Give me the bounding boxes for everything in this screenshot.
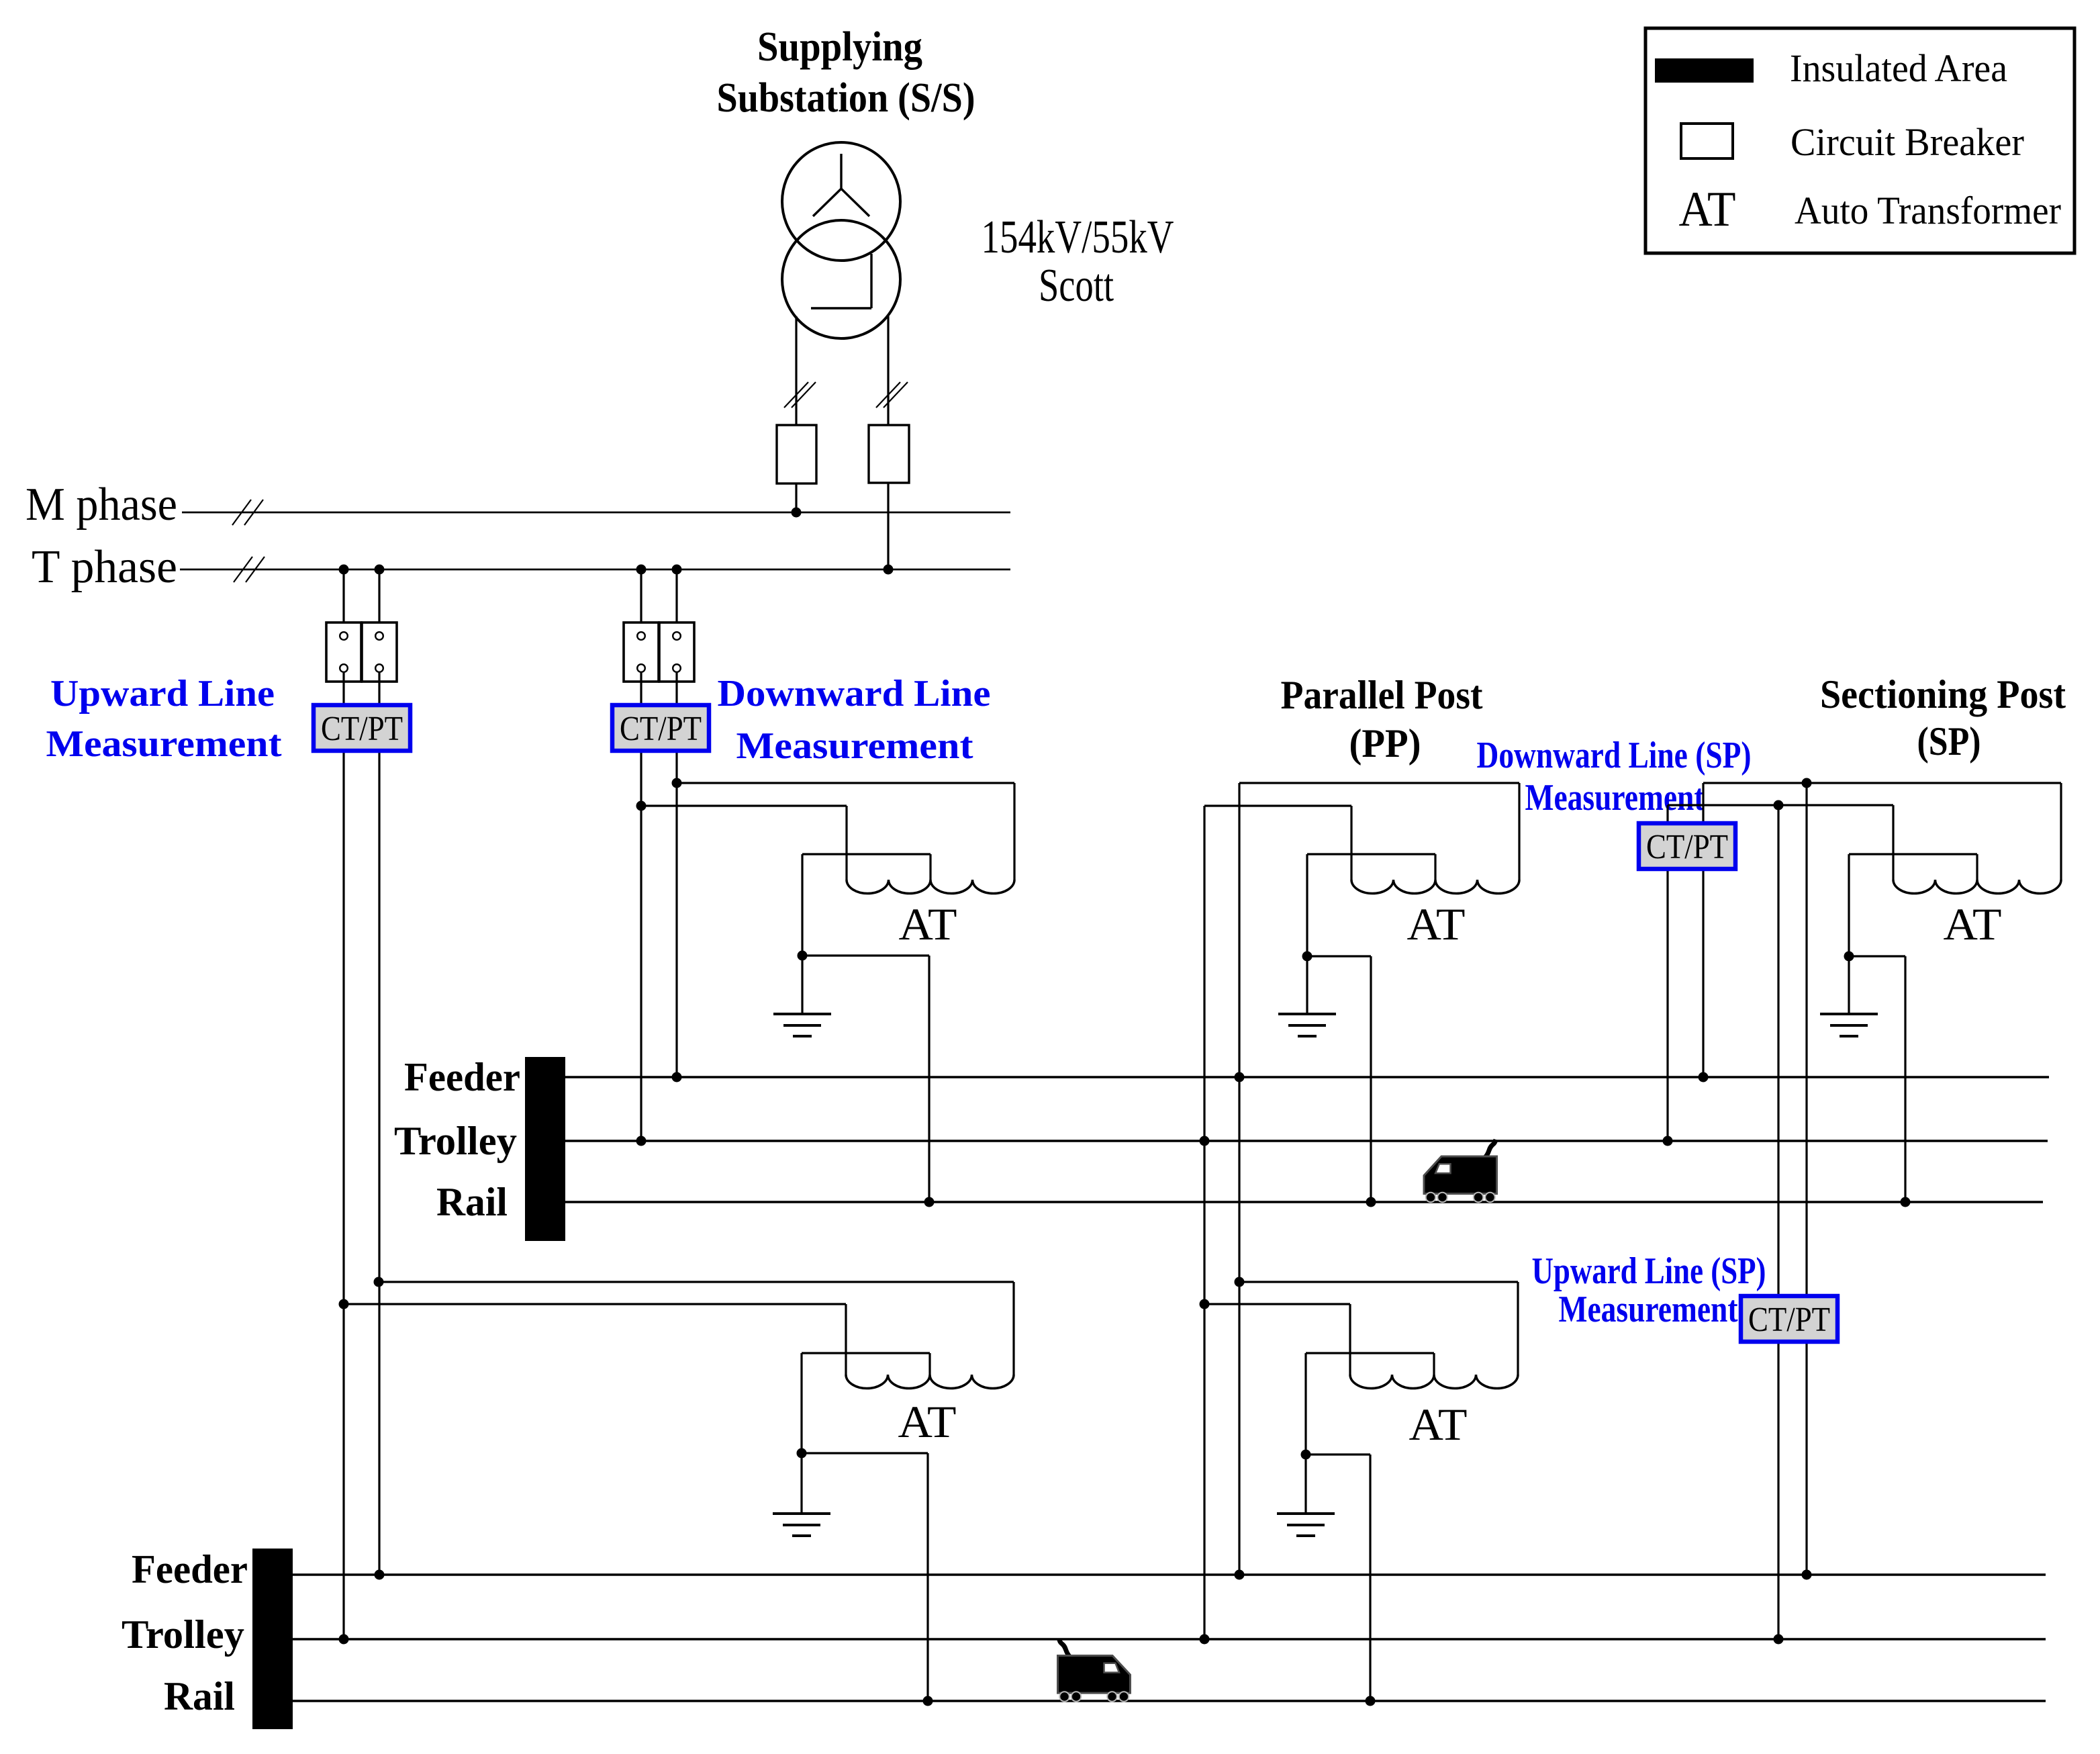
node T-leg junction — [884, 565, 894, 575]
svg-text:Measurement: Measurement — [736, 725, 973, 767]
break mark on T-leg — [876, 382, 908, 408]
wire Trolley line lower track — [293, 1638, 2046, 1640]
wire PP upward AT right terminal riser — [1517, 1282, 1519, 1375]
wire M phase bus — [182, 512, 1010, 514]
node PP upward AT rail junction — [1366, 1696, 1376, 1706]
wire SP downward CT/PT trolley-side vertical — [1666, 805, 1668, 1141]
node PP downward AT rail junction — [1366, 1197, 1376, 1207]
svg-text:154kV/55kV: 154kV/55kV — [982, 212, 1174, 263]
CT/PT box upward line measurement — [314, 705, 410, 751]
svg-text:T phase: T phase — [32, 541, 177, 593]
node downward breaker 1 on T bus — [636, 565, 647, 575]
node PP upward AT centre-tap junction — [1301, 1450, 1311, 1460]
auto-transformer PP upward AT winding — [1350, 1375, 1518, 1389]
svg-text:Upward Line: Upward Line — [50, 673, 275, 714]
svg-text:AT: AT — [1407, 898, 1466, 950]
wire PP downward AT centre-tap bar — [1307, 854, 1435, 956]
wire S/S downward AT feeder-side top wire — [677, 782, 1014, 784]
wire SP downward CT/PT feeder-side vertical — [1702, 783, 1704, 1077]
node upward breaker 1 on T bus — [339, 565, 349, 575]
node trolley2-PP — [1200, 1634, 1210, 1645]
auto-transformer S/S upward AT winding — [846, 1375, 1014, 1389]
wire PP upward AT centre-tap to rail — [1306, 1455, 1370, 1701]
svg-text:Measurement: Measurement — [1559, 1289, 1738, 1330]
circuit breaker downward-line left — [624, 622, 659, 682]
wire PP feeder-side vertical — [1238, 783, 1240, 1575]
node feeder2-PP — [1235, 1570, 1245, 1580]
wire S/S downward AT centre-tap to ground — [801, 956, 803, 1014]
train on upper track — [1486, 1140, 1496, 1157]
svg-text:CT/PT: CT/PT — [321, 710, 403, 748]
legend insulated-area swatch — [1655, 58, 1754, 83]
wire T phase bus — [180, 569, 1010, 571]
node SP AT feeder-wire junction — [1802, 778, 1812, 788]
wire SP AT centre-tap bar — [1849, 854, 1977, 956]
svg-text:AT: AT — [1409, 1399, 1468, 1450]
legend box — [1645, 28, 2074, 253]
wire transformer T-leg — [887, 316, 889, 569]
node S/S upward AT feeder tap — [374, 1277, 384, 1287]
wire Feeder line lower track — [293, 1573, 2046, 1575]
svg-text:M phase: M phase — [26, 479, 177, 530]
node S/S downward AT feeder tap — [672, 778, 682, 788]
svg-text:AT: AT — [1944, 898, 2002, 950]
node S/S upward AT centre-tap junction — [797, 1448, 807, 1459]
wire SP AT feeder-side top wire — [1703, 782, 2061, 784]
legend circuit-breaker swatch — [1681, 124, 1733, 158]
wire PP upward AT centre-tap bar — [1306, 1353, 1434, 1455]
wire T bus to downward breaker 1 — [640, 569, 642, 632]
wire transformer M-leg — [795, 316, 797, 512]
ground PP downward AT — [1278, 1014, 1336, 1036]
break mark on M phase bus — [232, 500, 263, 525]
node S/S downward AT rail junction — [924, 1197, 935, 1207]
wire downward breaker 1 down to trolley — [640, 672, 642, 1141]
circuit breaker upward-line right — [362, 622, 397, 682]
auto-transformer SP AT winding — [1893, 880, 2061, 893]
svg-text:Rail: Rail — [436, 1180, 508, 1224]
wire PP upward AT trolley-side top wire — [1204, 1303, 1350, 1305]
node S/S upward AT rail junction — [923, 1696, 933, 1706]
node feeder2-S/S — [375, 1570, 385, 1580]
wire SP AT centre-tap to ground — [1848, 956, 1850, 1014]
wire Rail line lower track — [293, 1700, 2046, 1702]
break mark on M-leg — [784, 382, 816, 408]
wire T bus to upward breaker 2 — [378, 569, 380, 632]
svg-text:CT/PT: CT/PT — [1646, 828, 1728, 866]
circuit breaker downward-line right — [659, 622, 694, 682]
wire S/S upward AT right terminal riser — [1012, 1282, 1014, 1375]
node trolley1-SP CT/PT — [1663, 1136, 1673, 1146]
node trolley1-S/S AT — [636, 1136, 647, 1146]
svg-text:Sectioning Post: Sectioning Post — [1820, 672, 2066, 717]
wire Trolley line upper track — [565, 1140, 2048, 1142]
node feeder1-S/S AT — [672, 1072, 682, 1082]
node S/S downward AT trolley tap — [636, 801, 647, 811]
svg-text:Upward Line (SP): Upward Line (SP) — [1532, 1250, 1766, 1292]
transformer secondary circle (scott winding) — [782, 220, 900, 338]
wire downward breaker 2 down to feeder — [675, 672, 677, 1077]
wire SP tie vertical feeder side — [1805, 783, 1807, 1575]
wire PP downward AT centre-tap to rail — [1307, 956, 1371, 1202]
svg-text:Trolley: Trolley — [122, 1612, 244, 1657]
node SP AT rail junction — [1901, 1197, 1911, 1207]
node trolley2-SP — [1774, 1634, 1784, 1645]
svg-text:AT: AT — [1679, 182, 1736, 237]
ground S/S downward AT — [773, 1014, 831, 1036]
wire S/S upward AT trolley-side top wire — [344, 1303, 846, 1305]
wire SP AT centre-tap to rail — [1849, 956, 1905, 1202]
node PP downward AT centre-tap junction — [1302, 952, 1312, 962]
ground S/S upward AT — [773, 1514, 830, 1536]
wire SP tie vertical trolley side — [1777, 805, 1779, 1639]
insulated area bar upper track — [525, 1057, 565, 1241]
transformer scott symbol — [811, 254, 871, 308]
svg-text:CT/PT: CT/PT — [1748, 1301, 1830, 1339]
transformer wye symbol — [813, 154, 869, 216]
wire S/S upward AT centre-tap bar — [802, 1353, 930, 1453]
wire T bus to upward breaker 1 — [342, 569, 344, 632]
wire SP AT left terminal riser — [1892, 805, 1894, 880]
svg-text:Measurement: Measurement — [1525, 777, 1705, 819]
svg-text:Measurement: Measurement — [46, 723, 282, 765]
svg-text:CT/PT: CT/PT — [620, 710, 702, 748]
node SP AT trolley-wire junction — [1774, 800, 1784, 811]
node S/S upward AT trolley tap — [339, 1299, 349, 1309]
circuit breaker CB-M on transformer leg — [777, 425, 816, 483]
wire S/S downward AT left terminal riser — [845, 806, 847, 880]
wire PP downward AT left terminal riser — [1350, 806, 1352, 880]
wire upward breaker 2 down to feeder line — [378, 672, 380, 1575]
wire PP downward AT right terminal riser — [1518, 783, 1520, 880]
wire S/S upward AT left terminal riser — [845, 1304, 847, 1375]
node SP AT centre-tap junction — [1844, 952, 1854, 962]
svg-text:AT: AT — [898, 1396, 957, 1447]
wire S/S downward AT centre-tap to rail — [802, 956, 929, 1202]
node trolley2-S/S — [339, 1634, 349, 1645]
node upward breaker 2 on T bus — [375, 565, 385, 575]
wire PP trolley-side vertical — [1203, 806, 1205, 1639]
wire PP upward AT feeder-side top wire — [1239, 1281, 1518, 1283]
node feeder2-SP — [1802, 1570, 1812, 1580]
node PP upward AT feeder tap — [1235, 1277, 1245, 1287]
svg-text:(PP): (PP) — [1349, 721, 1421, 766]
wire PP downward AT centre-tap to ground — [1306, 956, 1308, 1014]
svg-text:Feeder: Feeder — [132, 1547, 248, 1591]
break mark on T phase bus — [234, 557, 265, 582]
wire Rail line upper track — [565, 1201, 2043, 1203]
svg-text:Substation (S/S): Substation (S/S) — [717, 75, 975, 121]
CT/PT box downward line measurement — [612, 705, 709, 751]
node feeder1-PP — [1235, 1072, 1245, 1082]
svg-text:Scott: Scott — [1039, 260, 1114, 312]
wire S/S upward AT feeder-side top wire — [379, 1281, 1014, 1283]
auto-transformer PP downward AT winding — [1351, 880, 1519, 893]
svg-text:Insulated Area: Insulated Area — [1790, 46, 2007, 90]
wire S/S upward AT centre-tap to rail — [802, 1453, 928, 1701]
ground SP AT — [1820, 1014, 1878, 1036]
wire T bus to downward breaker 2 — [675, 569, 677, 632]
svg-text:(SP): (SP) — [1917, 719, 1981, 764]
wire PP downward AT feeder-side top wire — [1239, 782, 1519, 784]
svg-text:Downward Line: Downward Line — [718, 673, 991, 714]
auto-transformer S/S downward AT winding — [847, 880, 1014, 893]
wire upward breaker 1 down to trolley feeder — [342, 672, 344, 1639]
wire S/S downward AT right terminal riser — [1013, 783, 1015, 880]
svg-text:Supplying: Supplying — [757, 24, 922, 70]
insulated area bar lower track — [252, 1549, 293, 1729]
svg-text:Circuit Breaker: Circuit Breaker — [1791, 120, 2024, 164]
wire SP AT trolley-side top wire — [1668, 804, 1893, 806]
svg-text:AT: AT — [899, 898, 957, 950]
node PP upward AT trolley tap — [1200, 1299, 1210, 1309]
node M-leg junction — [792, 508, 802, 518]
node downward breaker 2 on T bus — [672, 565, 682, 575]
svg-text:Rail: Rail — [164, 1674, 235, 1718]
wire SP AT right terminal riser — [2060, 783, 2062, 880]
svg-text:Feeder: Feeder — [404, 1055, 520, 1099]
wire PP upward AT centre-tap to ground — [1304, 1455, 1306, 1514]
wire S/S downward AT centre-tap bar — [802, 854, 930, 956]
svg-text:Downward Line (SP): Downward Line (SP) — [1477, 735, 1752, 776]
svg-text:Trolley: Trolley — [394, 1119, 517, 1163]
wire PP upward AT left terminal riser — [1349, 1304, 1351, 1375]
CT/PT box downward line SP measurement — [1639, 823, 1735, 869]
CT/PT box upward line SP measurement — [1741, 1296, 1837, 1342]
node trolley1-PP — [1200, 1136, 1210, 1146]
node S/S downward AT centre-tap junction — [798, 951, 808, 961]
svg-text:Auto Transformer: Auto Transformer — [1795, 189, 2061, 232]
circuit breaker upward-line left — [326, 622, 361, 682]
wire Feeder line upper track — [565, 1076, 2049, 1078]
train on lower track — [1059, 1639, 1070, 1657]
circuit breaker CB-T on transformer leg — [869, 425, 909, 483]
wire S/S downward AT trolley-side top wire — [641, 804, 847, 806]
transformer primary circle (wye winding) — [782, 142, 900, 261]
node feeder1-SP CT/PT — [1699, 1072, 1709, 1082]
wire PP downward AT trolley-side top wire — [1204, 804, 1351, 806]
wire S/S upward AT centre-tap to ground — [800, 1453, 802, 1514]
ground PP upward AT — [1277, 1514, 1335, 1536]
svg-text:Parallel Post: Parallel Post — [1281, 673, 1483, 717]
